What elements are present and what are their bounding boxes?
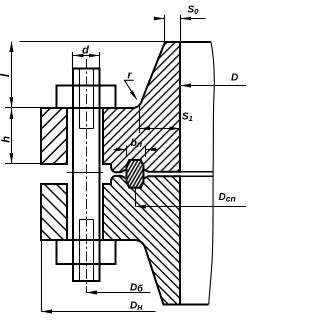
gasket (octagonal ring): [127, 160, 144, 188]
stud top end: [72, 68, 101, 70]
svg-text:bп: bп: [131, 137, 143, 149]
svg-text:d: d: [82, 45, 89, 57]
arrow at h bottom: [10, 153, 14, 164]
extension at flange top face: [5, 107, 41, 109]
dimension D_b: [87, 292, 151, 294]
top extension line (l top, pipe top): [20, 41, 166, 43]
stud (bolt) outer edges: [72, 69, 74, 282]
arrows at flange top face for l/h: [10, 97, 14, 108]
upper flange left block (left of bolt hole): [41, 108, 67, 164]
gasket axis / D_sp extension: [135, 189, 137, 207]
dimension D: [181, 85, 247, 87]
svg-text:Dб: Dб: [130, 282, 143, 293]
extension flange outer edge down: [41, 240, 43, 312]
svg-text:Dсп: Dсп: [219, 192, 237, 203]
stud thread line right upper: [93, 69, 95, 129]
upper nut: [57, 86, 116, 109]
dimension D_sp: [136, 206, 247, 208]
stud thread line left lower: [79, 220, 81, 282]
dimension S1: [139, 104, 141, 133]
svg-text:h: h: [1, 136, 13, 143]
dimension l and h vertical line: [11, 42, 13, 164]
stud axis center line: [86, 59, 88, 293]
pipe top cut edge: [180, 41, 211, 43]
dimension b_p: [126, 146, 128, 158]
svg-text:l: l: [0, 73, 12, 77]
svg-text:S0: S0: [188, 5, 200, 17]
stud thread line right lower: [93, 220, 95, 282]
svg-text:S1: S1: [182, 112, 193, 124]
thread runout lower: [80, 219, 94, 221]
stud bottom end: [72, 280, 101, 282]
pipe bottom cut edge: [180, 304, 209, 306]
svg-text:r: r: [127, 70, 132, 82]
stud thread line left upper: [79, 69, 81, 129]
extension at flange bottom face: [5, 163, 41, 165]
svg-text:Dн: Dн: [130, 301, 143, 312]
upper flange with hub (sectioned, right of bolt hole): [103, 42, 180, 172]
dimension d: [73, 55, 100, 57]
flange joint line across bolt hole: [67, 172, 103, 174]
dimension D_n: [42, 311, 156, 313]
dimension S0: [164, 15, 166, 42]
lower nut: [57, 240, 116, 264]
thread runout upper: [80, 128, 94, 130]
svg-text:D: D: [231, 73, 238, 84]
leader r: [124, 79, 134, 81]
lower flange left block (left of bolt hole): [41, 184, 67, 240]
flange gap lower line seen through bore: [180, 175, 213, 177]
break line (wavy): [209, 42, 215, 305]
flange gap upper line seen through bore: [180, 171, 213, 173]
lower flange with hub (sectioned, right of bolt hole): [103, 176, 180, 305]
